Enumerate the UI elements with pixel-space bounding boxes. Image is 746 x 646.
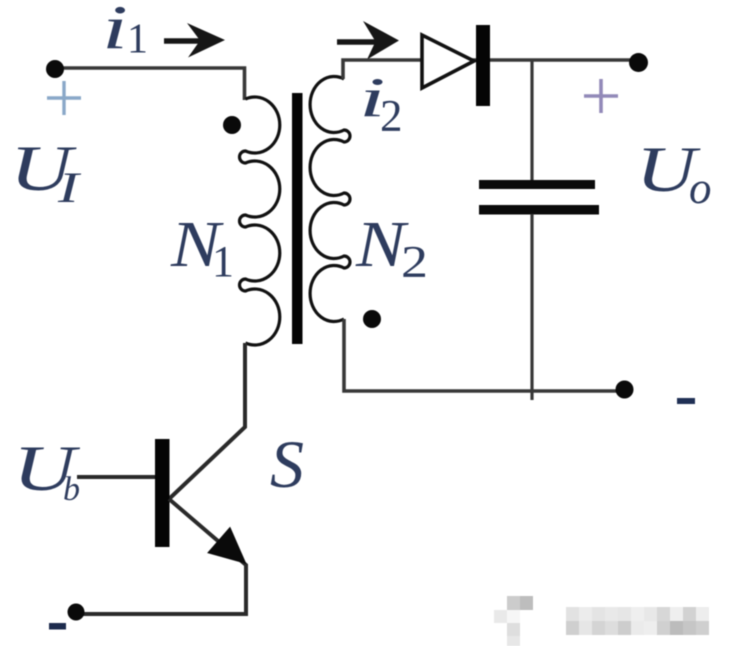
minus sign at bottom left xyxy=(49,623,66,630)
secondary polarity dot xyxy=(363,310,381,328)
diode D anode triangle xyxy=(422,35,474,88)
svg-text:2: 2 xyxy=(401,237,428,287)
node bottom-left terminal dot xyxy=(68,604,85,621)
node UI+ terminal dot xyxy=(46,60,64,78)
plus sign at Uo xyxy=(584,79,618,113)
wire: primary bottom to transistor collector xyxy=(169,343,245,499)
wire: capacitor top branch xyxy=(530,60,533,180)
node output + terminal dot xyxy=(629,53,648,72)
transistor S base bar xyxy=(155,439,170,547)
transformer secondary winding N2 xyxy=(310,77,350,322)
plus sign at UI xyxy=(47,81,81,115)
transformer primary winding N1 xyxy=(240,97,280,345)
primary polarity dot xyxy=(223,116,241,134)
svg-text:I: I xyxy=(57,163,81,211)
wire: secondary bottom rail to output - terminal xyxy=(344,319,624,391)
arrow i2 xyxy=(337,21,399,60)
capacitor C top plate xyxy=(479,180,595,189)
svg-text:S: S xyxy=(270,426,304,502)
node output - terminal dot xyxy=(616,381,634,399)
watermark gray blocks xyxy=(494,596,709,646)
arrow i1 xyxy=(164,23,225,58)
transistor emitter arrowhead xyxy=(207,527,246,564)
wire: capacitor bottom branch xyxy=(530,214,533,400)
wire: base wire xyxy=(77,475,155,479)
svg-text:o: o xyxy=(689,163,712,213)
svg-text:i: i xyxy=(102,0,128,63)
svg-text:1: 1 xyxy=(212,237,234,286)
transistor emitter wire with arrow xyxy=(76,499,246,614)
diode cathode bar xyxy=(476,25,490,106)
wire: secondary top to diode to output + terminal xyxy=(343,60,638,79)
transformer core bar xyxy=(292,93,303,344)
svg-text:1: 1 xyxy=(127,17,148,63)
minus sign at output xyxy=(677,398,695,404)
wire: top-left horizontal from UI+ terminal to primary top xyxy=(55,68,245,100)
capacitor C bottom plate xyxy=(479,205,599,215)
svg-text:2: 2 xyxy=(380,91,403,141)
